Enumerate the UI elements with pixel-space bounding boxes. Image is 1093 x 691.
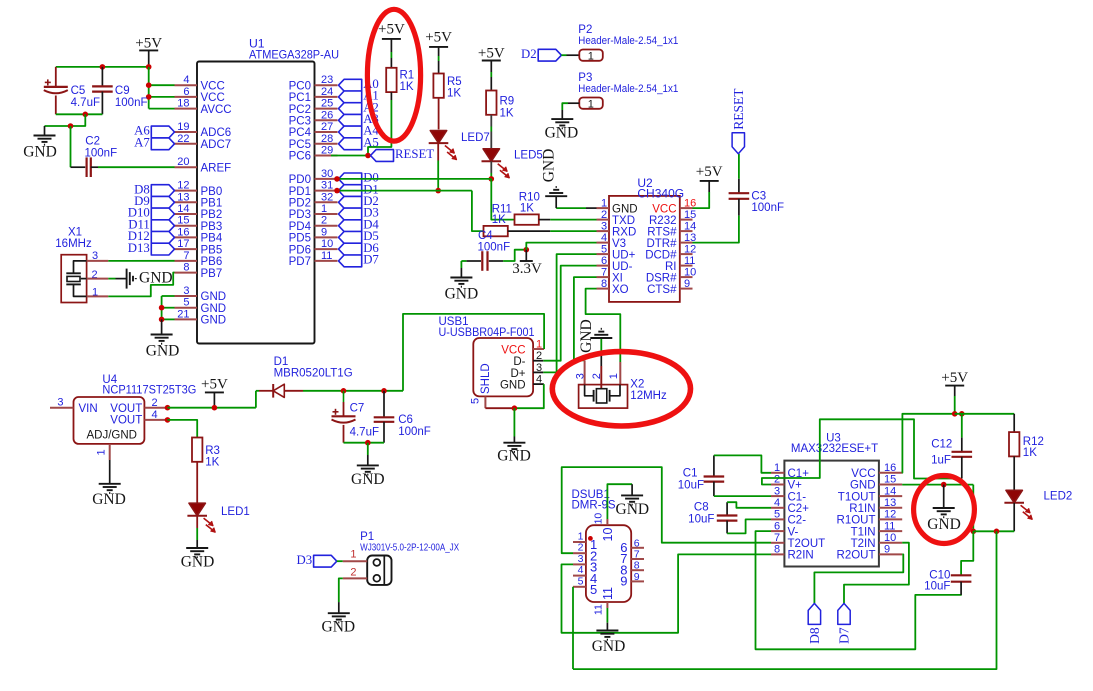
svg-text:15: 15 bbox=[684, 209, 696, 221]
net flag D7 bbox=[838, 603, 850, 624]
IC U1 ATMEGA328P-AU bbox=[197, 62, 315, 344]
wire to VCC pin4 bbox=[149, 84, 175, 86]
node junction C6 top bbox=[381, 388, 387, 394]
svg-text:PC6: PC6 bbox=[289, 151, 311, 163]
svg-text:6: 6 bbox=[601, 255, 607, 267]
svg-text:14: 14 bbox=[684, 220, 696, 232]
svg-text:PB4: PB4 bbox=[201, 233, 223, 245]
svg-text:PC1: PC1 bbox=[289, 92, 311, 104]
wire C3 to DTR# pin13 bbox=[693, 216, 739, 243]
U1 right pins bbox=[315, 84, 338, 86]
svg-text:3.3V: 3.3V bbox=[512, 261, 542, 277]
wire XI to X2 pin3 bbox=[574, 277, 597, 360]
wire C2 to AREF pin20 bbox=[98, 166, 175, 168]
svg-text:GND: GND bbox=[500, 380, 526, 392]
svg-text:GND: GND bbox=[497, 448, 531, 465]
svg-text:4: 4 bbox=[578, 564, 584, 576]
svg-text:PC3: PC3 bbox=[289, 116, 311, 128]
svg-text:100nF: 100nF bbox=[478, 242, 511, 254]
resistor R12 1K bbox=[1009, 432, 1019, 456]
wire SHLD to GND node bbox=[485, 407, 514, 409]
wire +5V rail (U4 output) bbox=[168, 407, 256, 409]
svg-text:DCD#: DCD# bbox=[645, 249, 677, 261]
net flag A5 bbox=[339, 138, 362, 150]
svg-text:AVCC: AVCC bbox=[201, 104, 232, 116]
svg-text:ADC6: ADC6 bbox=[201, 127, 232, 139]
svg-text:D7: D7 bbox=[837, 627, 852, 644]
svg-text:14: 14 bbox=[884, 485, 896, 497]
svg-text:GND: GND bbox=[322, 619, 356, 636]
wire D1 net horizontal bbox=[337, 190, 472, 192]
wire VCC pin16 to +5V bbox=[902, 414, 955, 473]
wire VCC feed vertical bbox=[148, 67, 150, 109]
net flag D10 bbox=[151, 208, 174, 220]
capacitor C6 100nF bbox=[383, 391, 385, 418]
svg-text:T2IN: T2IN bbox=[851, 538, 876, 550]
wire D0 to R10 bbox=[491, 179, 514, 220]
U4 pin3 VIN stub bbox=[50, 407, 74, 409]
svg-text:5: 5 bbox=[183, 297, 189, 309]
wire +5V to R5 bbox=[438, 56, 440, 61]
svg-text:100nF: 100nF bbox=[751, 202, 784, 214]
wire LED2 to GND rail bbox=[1013, 503, 1015, 532]
svg-text:GND: GND bbox=[578, 319, 595, 353]
svg-text:R5: R5 bbox=[447, 76, 462, 88]
power symbol 3.3V bbox=[525, 250, 527, 261]
node junction DSUB5 branch bbox=[994, 529, 1000, 535]
svg-text:10: 10 bbox=[601, 528, 615, 542]
svg-text:CH340G: CH340G bbox=[637, 186, 684, 200]
svg-text:ATMEGA328P-AU: ATMEGA328P-AU bbox=[249, 48, 339, 62]
net flag D2 bbox=[339, 196, 362, 208]
LED LED1 bbox=[189, 503, 205, 516]
ground GND (U4) bbox=[109, 460, 111, 484]
svg-text:4: 4 bbox=[183, 74, 189, 86]
svg-text:GND: GND bbox=[616, 501, 650, 518]
wire USB ground drop bbox=[513, 408, 515, 436]
svg-text:LED2: LED2 bbox=[1044, 491, 1073, 503]
svg-text:VCC: VCC bbox=[652, 203, 676, 215]
net flag D6 bbox=[339, 243, 362, 255]
svg-text:+5V: +5V bbox=[135, 36, 162, 52]
wire VOUT pin4 to R3 bbox=[168, 420, 198, 438]
svg-text:T1OUT: T1OUT bbox=[838, 491, 876, 503]
svg-text:1: 1 bbox=[578, 531, 584, 543]
svg-text:GND: GND bbox=[92, 491, 126, 508]
resistor R11 1K bbox=[484, 226, 508, 236]
wire R11 to RXD bbox=[508, 230, 551, 232]
svg-text:10: 10 bbox=[884, 532, 896, 544]
svg-text:C6: C6 bbox=[398, 414, 413, 426]
svg-text:GND: GND bbox=[201, 291, 227, 303]
wire DSUB pin11 to ground bbox=[606, 608, 608, 623]
svg-text:6: 6 bbox=[183, 86, 189, 98]
svg-text:+5V: +5V bbox=[696, 164, 723, 180]
node junction D0 flag bbox=[334, 176, 340, 182]
svg-text:3: 3 bbox=[575, 373, 587, 379]
DSUB1 pin 8 bbox=[631, 569, 644, 571]
net flag D3 bbox=[314, 555, 337, 567]
svg-text:10uF: 10uF bbox=[688, 513, 714, 525]
USB1 pin5 SHLD stub bbox=[484, 396, 486, 408]
capacitor C8 10uF bbox=[726, 502, 728, 515]
capacitor C7 4.7uF bbox=[343, 391, 345, 402]
svg-text:PB6: PB6 bbox=[201, 256, 223, 268]
DSUB1 pin 9 bbox=[631, 580, 644, 582]
svg-text:10uF: 10uF bbox=[924, 581, 950, 593]
svg-text:NCP1117ST25T3G: NCP1117ST25T3G bbox=[102, 384, 196, 396]
ground GND (DSUB top) bbox=[631, 484, 633, 495]
wire R2OUT pin9 to D8 flag bbox=[814, 554, 903, 603]
wire R10 to TXD bbox=[539, 219, 551, 221]
svg-text:A7: A7 bbox=[134, 136, 150, 150]
X2 pin3 lead bbox=[584, 360, 586, 384]
wire to VCC pin6 bbox=[149, 96, 175, 98]
svg-text:PD2: PD2 bbox=[289, 198, 311, 210]
svg-text:23: 23 bbox=[321, 74, 333, 86]
svg-text:ADJ/GND: ADJ/GND bbox=[87, 430, 137, 442]
svg-text:10: 10 bbox=[684, 266, 696, 278]
svg-text:4: 4 bbox=[601, 232, 607, 244]
+5V power symbol (U2) bbox=[700, 180, 719, 182]
highlight ellipse (GND U3) bbox=[914, 476, 975, 544]
P1 pin2 wire bbox=[343, 577, 367, 579]
+5V power symbol (U3) bbox=[945, 385, 964, 387]
wire +5V rail top-left bbox=[56, 66, 149, 68]
wire R9 to LED5 bbox=[490, 115, 492, 127]
ground GND (P3) bbox=[551, 118, 573, 120]
svg-text:D3: D3 bbox=[296, 553, 312, 567]
net flag D3 bbox=[339, 208, 362, 220]
svg-text:P1: P1 bbox=[360, 531, 374, 543]
svg-text:+5V: +5V bbox=[941, 370, 968, 386]
svg-text:RTS#: RTS# bbox=[647, 226, 677, 238]
net flag A3 bbox=[339, 114, 362, 126]
svg-text:D7: D7 bbox=[363, 253, 379, 267]
svg-text:D13: D13 bbox=[128, 241, 150, 255]
svg-text:PC0: PC0 bbox=[289, 80, 311, 92]
svg-text:1uF: 1uF bbox=[931, 455, 951, 467]
net flag D13 bbox=[151, 243, 174, 255]
+5V power symbol (top-left) bbox=[139, 49, 158, 51]
svg-text:1: 1 bbox=[588, 98, 594, 110]
LED LED2 bbox=[1006, 490, 1022, 503]
resistor R1 1K bbox=[386, 68, 396, 92]
node junction GND symbol bbox=[941, 482, 947, 488]
svg-text:R12: R12 bbox=[1023, 436, 1044, 448]
svg-text:15: 15 bbox=[884, 474, 896, 486]
resistor R10 1K bbox=[515, 214, 539, 224]
svg-text:11: 11 bbox=[884, 520, 895, 532]
DSUB1 pin1 marker bbox=[588, 536, 593, 541]
svg-text:C12: C12 bbox=[931, 439, 952, 451]
node junction VOUT pin2 bbox=[165, 405, 171, 411]
svg-text:RESET: RESET bbox=[731, 88, 746, 130]
net flag D8 bbox=[151, 185, 174, 197]
IC U3 MAX3232ESE+T bbox=[784, 461, 879, 567]
svg-text:2: 2 bbox=[774, 474, 780, 486]
wire PC6 pin29 to RESET bbox=[331, 155, 368, 157]
svg-text:C7: C7 bbox=[350, 403, 365, 415]
wire X1 pin2 to ground bbox=[108, 278, 115, 280]
+5V power symbol (U4) bbox=[205, 391, 224, 393]
USB1 pins bbox=[533, 348, 544, 350]
svg-text:2: 2 bbox=[151, 397, 157, 409]
capacitor C9 100nF bbox=[101, 67, 103, 87]
X1 pin stubs bbox=[87, 260, 109, 262]
capacitor C2 100nF bbox=[71, 166, 86, 168]
svg-text:100nF: 100nF bbox=[85, 148, 118, 160]
svg-text:VCC: VCC bbox=[201, 92, 225, 104]
DSUB1 pin 3 bbox=[573, 563, 586, 565]
svg-text:1: 1 bbox=[321, 203, 327, 215]
wire RESET flag to C3 bbox=[738, 154, 740, 179]
svg-text:1K: 1K bbox=[400, 81, 414, 93]
U3 right pins bbox=[879, 472, 902, 474]
node junction C2 branch bbox=[68, 123, 74, 129]
wire C5-C9 bottom rail bbox=[56, 113, 103, 115]
svg-text:GND: GND bbox=[592, 638, 626, 655]
svg-text:4.7uF: 4.7uF bbox=[71, 97, 100, 109]
svg-text:D8: D8 bbox=[807, 627, 822, 644]
highlight ellipse (R1) bbox=[367, 9, 420, 141]
svg-text:7: 7 bbox=[634, 549, 640, 561]
svg-text:GND: GND bbox=[541, 149, 558, 183]
ground GND (C7/C6) bbox=[367, 455, 369, 465]
svg-text:31: 31 bbox=[321, 180, 333, 192]
svg-text:5: 5 bbox=[590, 582, 597, 597]
wire C4 to ground bbox=[460, 261, 462, 268]
svg-text:1: 1 bbox=[608, 373, 620, 379]
net flag D8 bbox=[808, 603, 820, 624]
svg-text:5: 5 bbox=[578, 575, 584, 587]
wire rail to ground drop bbox=[45, 114, 86, 126]
svg-text:D+: D+ bbox=[510, 368, 525, 380]
net flag A2 bbox=[339, 103, 362, 115]
svg-text:15: 15 bbox=[177, 215, 189, 227]
svg-text:MAX3232ESE+T: MAX3232ESE+T bbox=[791, 443, 878, 455]
svg-text:GND: GND bbox=[23, 144, 57, 161]
U1 left pins bbox=[175, 84, 198, 86]
U4 pin1 ADJ stub bbox=[109, 444, 111, 460]
wire GND rail to DSUB pin5 run bbox=[573, 531, 997, 669]
svg-text:MBR0520LT1G: MBR0520LT1G bbox=[274, 368, 353, 380]
svg-text:LED1: LED1 bbox=[221, 506, 250, 518]
wire LED7 to D1 net bbox=[437, 143, 439, 160]
svg-text:3: 3 bbox=[578, 553, 584, 565]
ground GND (DSUB bottom) bbox=[596, 630, 618, 632]
svg-text:1: 1 bbox=[536, 339, 542, 351]
svg-text:4: 4 bbox=[536, 374, 542, 386]
wire X1 pin1 to PB7 bbox=[108, 273, 174, 297]
svg-text:9: 9 bbox=[684, 278, 690, 290]
svg-text:C2-: C2- bbox=[788, 515, 807, 527]
svg-text:TXD: TXD bbox=[612, 215, 635, 227]
capacitor C12 1uF bbox=[961, 414, 963, 438]
node junction +5V rail bbox=[146, 64, 152, 70]
svg-text:2: 2 bbox=[321, 215, 327, 227]
wire U1 GND pins bus bbox=[162, 295, 175, 297]
net flag RESET (vertical) bbox=[732, 133, 744, 154]
node junction +5V right bbox=[959, 411, 965, 417]
svg-text:PC5: PC5 bbox=[289, 139, 311, 151]
ground GND (C4) bbox=[460, 268, 462, 278]
net flag D2 bbox=[538, 49, 561, 61]
svg-text:16: 16 bbox=[884, 462, 896, 474]
ground GND (X1, rotated) bbox=[116, 278, 127, 280]
node junction RESET bbox=[365, 153, 371, 159]
svg-text:3: 3 bbox=[774, 485, 780, 497]
svg-text:XI: XI bbox=[612, 272, 623, 284]
svg-text:AREF: AREF bbox=[201, 162, 232, 174]
svg-text:PD7: PD7 bbox=[289, 256, 311, 268]
svg-text:4: 4 bbox=[151, 409, 157, 421]
svg-text:1K: 1K bbox=[447, 88, 461, 100]
ground GND (U2 pin1, inverted) bbox=[545, 195, 567, 197]
svg-text:PD1: PD1 bbox=[289, 186, 311, 198]
net flag A0 bbox=[339, 79, 362, 91]
DSUB1 pin 5 bbox=[573, 586, 586, 588]
svg-text:2: 2 bbox=[578, 542, 584, 554]
wire V- pin6 to C10 bottom bbox=[756, 531, 962, 649]
ground GND (USB1) bbox=[513, 437, 515, 443]
svg-text:R9: R9 bbox=[500, 96, 515, 108]
svg-text:DTR#: DTR# bbox=[646, 238, 677, 250]
svg-text:R1OUT: R1OUT bbox=[837, 515, 876, 527]
wire T2IN pin10 to D7 flag bbox=[844, 543, 909, 604]
ground GND (top-left) bbox=[44, 126, 46, 136]
svg-text:+5V: +5V bbox=[378, 22, 405, 38]
svg-text:14: 14 bbox=[177, 203, 189, 215]
svg-text:13: 13 bbox=[884, 497, 896, 509]
svg-text:SHLD: SHLD bbox=[480, 363, 492, 394]
wire +5V to R1 bbox=[390, 52, 392, 58]
svg-text:PD6: PD6 bbox=[289, 244, 311, 256]
svg-text:20: 20 bbox=[177, 156, 189, 168]
svg-text:4: 4 bbox=[774, 497, 780, 509]
ground GND (LED1) bbox=[196, 540, 198, 548]
wire R5 to LED7 bbox=[438, 98, 440, 130]
wire D1 to R11 bbox=[472, 191, 484, 232]
DSUB1 pin 1 bbox=[573, 541, 586, 543]
svg-text:VCC: VCC bbox=[201, 80, 225, 92]
svg-text:8: 8 bbox=[774, 544, 780, 556]
wire D3 to P1 pin1 bbox=[337, 560, 343, 562]
svg-text:3: 3 bbox=[57, 396, 63, 408]
wire LED5 to D0 net bbox=[490, 161, 492, 173]
svg-text:+5V: +5V bbox=[478, 46, 505, 62]
svg-text:1: 1 bbox=[774, 462, 780, 474]
svg-text:V+: V+ bbox=[788, 480, 803, 492]
svg-text:12: 12 bbox=[884, 509, 896, 521]
wire R1 to RESET net bbox=[390, 92, 392, 100]
ground GND (U1) bbox=[161, 319, 163, 334]
net flag A1 bbox=[339, 91, 362, 103]
net flag D11 bbox=[151, 220, 174, 232]
svg-text:1: 1 bbox=[588, 50, 594, 62]
svg-text:8: 8 bbox=[183, 262, 189, 274]
node junction bottom rail bbox=[83, 112, 89, 118]
node junction USB ground bbox=[512, 405, 518, 411]
capacitor C10 10uF bbox=[961, 531, 973, 575]
svg-text:C9: C9 bbox=[115, 85, 130, 97]
svg-text:13: 13 bbox=[177, 191, 189, 203]
svg-text:PB2: PB2 bbox=[201, 209, 223, 221]
net flag D9 bbox=[151, 196, 174, 208]
svg-text:9: 9 bbox=[321, 226, 327, 238]
LED LED5 bbox=[483, 149, 499, 162]
node junction VOUT pin4 bbox=[165, 417, 171, 423]
svg-text:VIN: VIN bbox=[79, 403, 98, 415]
svg-text:UD+: UD+ bbox=[612, 249, 636, 261]
node junction LED7/D1 bbox=[435, 188, 441, 194]
crystal X1 16MHz bbox=[61, 255, 86, 303]
svg-text:Header-Male-2.54_1x1: Header-Male-2.54_1x1 bbox=[578, 83, 678, 95]
IC U2 CH340G bbox=[609, 196, 680, 302]
svg-text:X2: X2 bbox=[630, 378, 644, 390]
svg-text:10: 10 bbox=[593, 513, 605, 525]
svg-text:1K: 1K bbox=[520, 203, 534, 215]
svg-text:R232: R232 bbox=[649, 215, 677, 227]
svg-text:+5V: +5V bbox=[201, 377, 228, 393]
svg-text:2: 2 bbox=[601, 209, 607, 221]
U4 pin2 VOUT stub bbox=[144, 407, 167, 409]
crystal X2 12MHz bbox=[579, 385, 628, 409]
svg-text:R2OUT: R2OUT bbox=[837, 550, 876, 562]
svg-text:C5: C5 bbox=[71, 85, 86, 97]
svg-text:100nF: 100nF bbox=[115, 97, 148, 109]
DSUB1 pin11 bbox=[606, 602, 608, 608]
node junction 3.3V bbox=[524, 247, 530, 253]
svg-text:GND: GND bbox=[146, 343, 180, 360]
svg-text:9: 9 bbox=[884, 544, 890, 556]
capacitor C1 10uF bbox=[713, 455, 715, 476]
svg-text:T2OUT: T2OUT bbox=[788, 538, 826, 550]
svg-text:LED7: LED7 bbox=[461, 132, 490, 144]
ground GND (U3, circled) bbox=[943, 485, 945, 508]
svg-text:1K: 1K bbox=[500, 107, 514, 119]
svg-text:XO: XO bbox=[612, 284, 629, 296]
svg-text:11: 11 bbox=[321, 250, 332, 262]
wire R2IN pin8 to DSUB pin3 bbox=[562, 554, 772, 632]
capacitor C4 100nF bbox=[461, 260, 466, 262]
resistor R5 1K bbox=[433, 74, 443, 98]
svg-text:6: 6 bbox=[774, 520, 780, 532]
node junction C9 top bbox=[100, 64, 106, 70]
wire C1 top to C1+ pin1 bbox=[714, 455, 771, 472]
svg-text:11: 11 bbox=[684, 255, 695, 267]
svg-text:+5V: +5V bbox=[425, 30, 452, 46]
svg-text:PD5: PD5 bbox=[289, 233, 311, 245]
svg-text:ADC7: ADC7 bbox=[201, 139, 232, 151]
svg-text:D1: D1 bbox=[274, 356, 289, 368]
wire LED1 to ground bbox=[196, 516, 198, 528]
node junction +5V stem bbox=[212, 405, 218, 411]
ground GND (P1) bbox=[328, 612, 350, 614]
net flag D0 bbox=[339, 173, 362, 185]
wire USB VCC to +5V rail bbox=[403, 314, 544, 391]
svg-text:VOUT: VOUT bbox=[110, 415, 142, 427]
DSUB1 pin 2 bbox=[573, 552, 586, 554]
wires UD- to USB D- bbox=[543, 266, 596, 361]
svg-text:PD0: PD0 bbox=[289, 174, 311, 186]
node junction D1 flag bbox=[334, 188, 340, 194]
wire USB GND pin4 down bbox=[514, 384, 543, 408]
svg-text:PB7: PB7 bbox=[201, 268, 223, 280]
svg-text:1K: 1K bbox=[1023, 447, 1037, 459]
svg-text:PB5: PB5 bbox=[201, 244, 223, 256]
svg-text:2: 2 bbox=[350, 567, 356, 579]
